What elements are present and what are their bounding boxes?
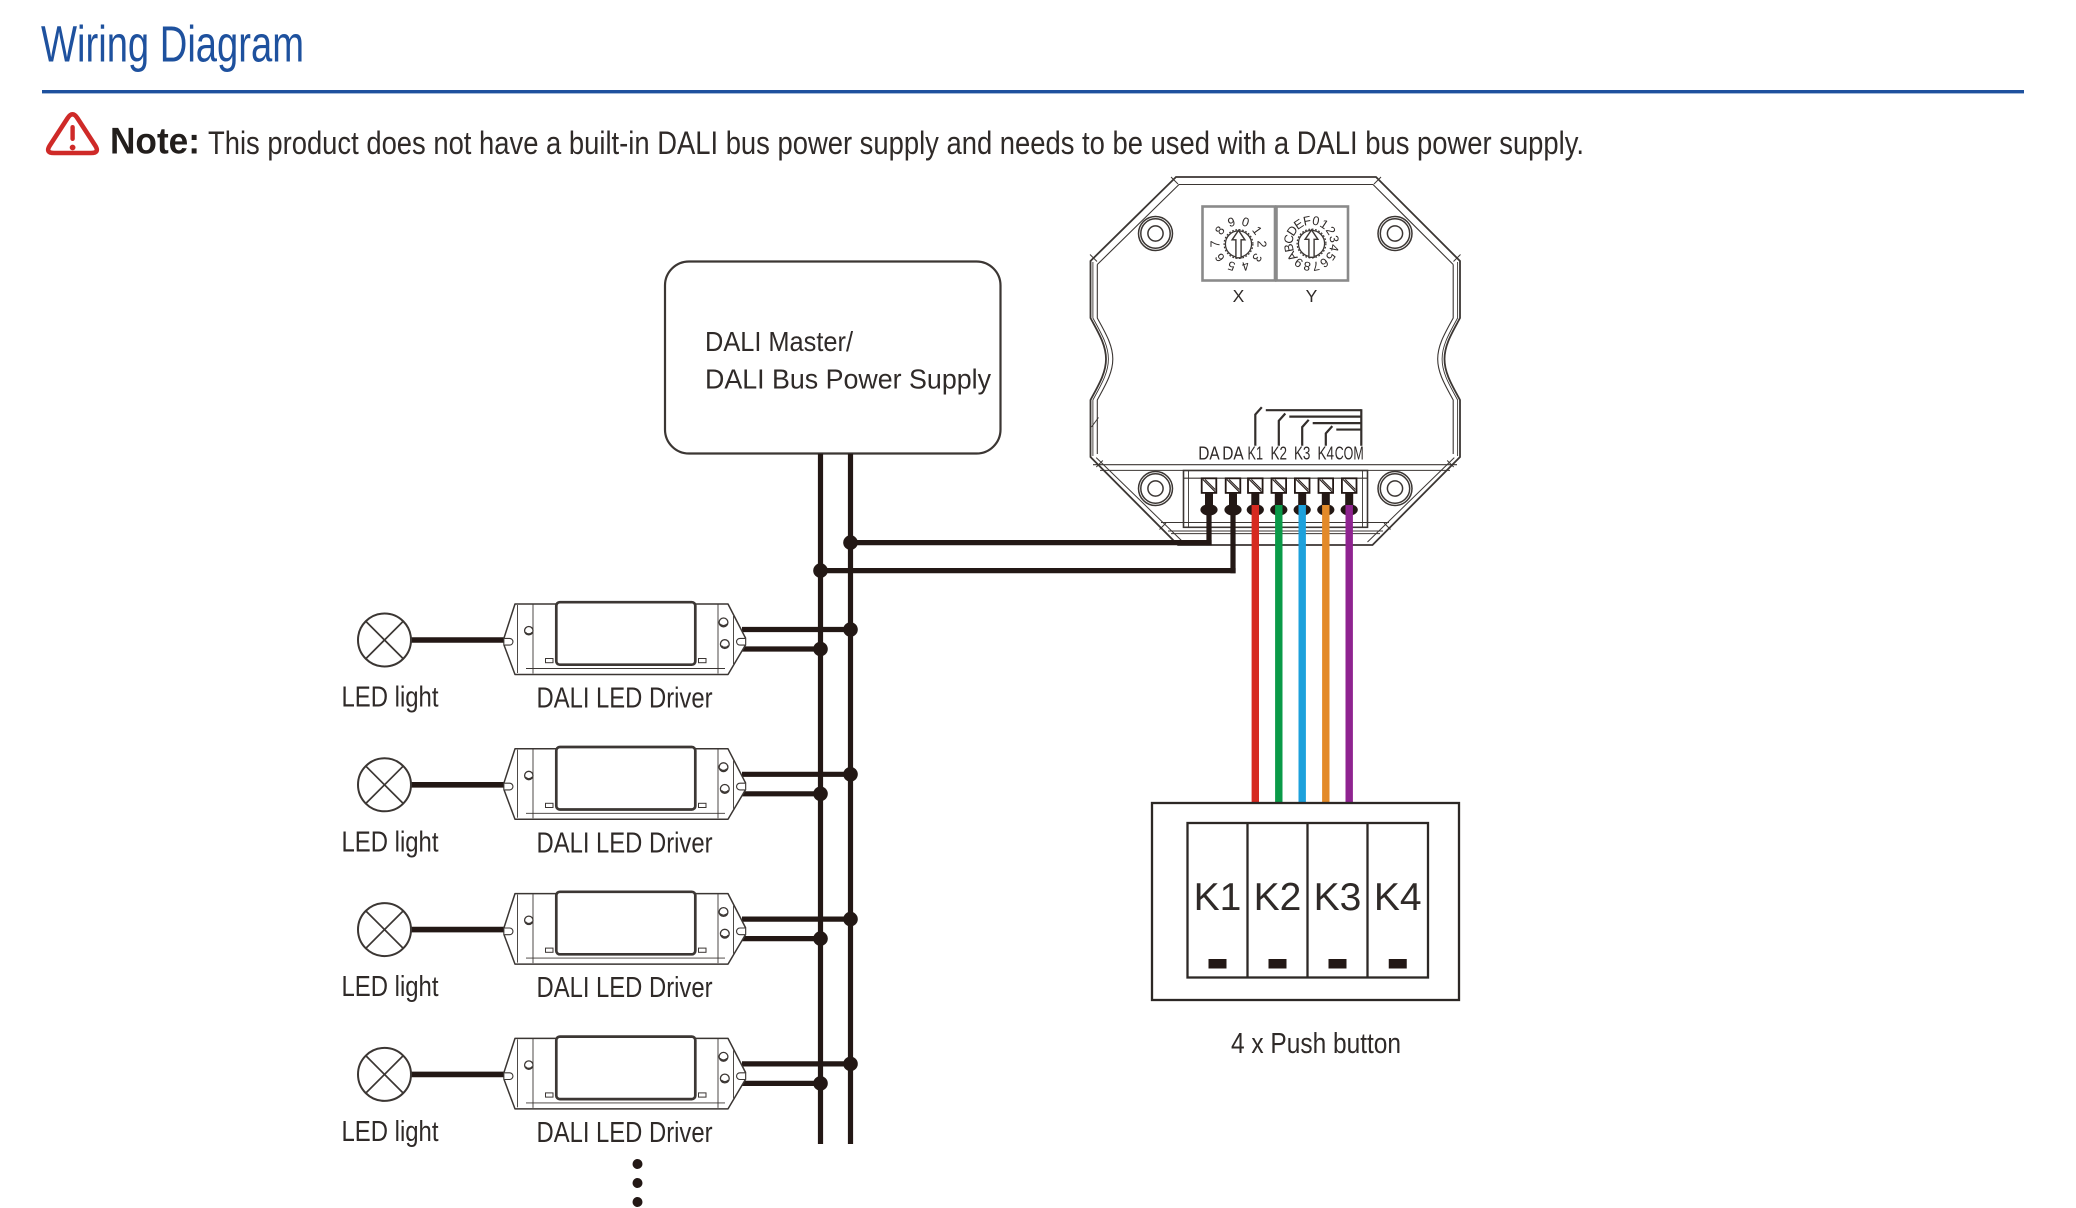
svg-text:K2: K2 <box>1271 444 1288 464</box>
svg-text:K2: K2 <box>1254 876 1302 919</box>
svg-text:K3: K3 <box>1294 444 1311 464</box>
svg-text:LED light: LED light <box>342 971 439 1003</box>
svg-text:4 x Push button: 4 x Push button <box>1231 1028 1401 1060</box>
svg-text:LED light: LED light <box>342 1116 439 1148</box>
svg-text:2: 2 <box>1254 240 1268 247</box>
svg-text:This product does not have a b: This product does not have a built-in DA… <box>208 125 1584 161</box>
svg-text:Wiring Diagram: Wiring Diagram <box>41 16 304 73</box>
svg-text:7: 7 <box>1209 240 1223 247</box>
svg-text:DALI LED Driver: DALI LED Driver <box>537 972 713 1004</box>
svg-text:K4: K4 <box>1374 876 1422 919</box>
svg-text:COM: COM <box>1335 444 1364 464</box>
svg-text:DALI LED Driver: DALI LED Driver <box>537 827 713 859</box>
svg-text:LED light: LED light <box>342 826 439 858</box>
svg-text:K4: K4 <box>1318 444 1335 464</box>
svg-text:DALI Master/: DALI Master/ <box>705 326 853 357</box>
svg-text:DALI LED Driver: DALI LED Driver <box>537 683 713 715</box>
svg-text:X: X <box>1233 286 1245 306</box>
svg-text:DALI LED Driver: DALI LED Driver <box>537 1117 713 1149</box>
svg-text:DA: DA <box>1222 444 1244 464</box>
svg-text:Y: Y <box>1306 286 1318 306</box>
svg-text:DALI Bus Power Supply: DALI Bus Power Supply <box>705 364 991 395</box>
svg-text:K1: K1 <box>1248 444 1264 464</box>
svg-text:K1: K1 <box>1194 876 1242 919</box>
svg-text:K3: K3 <box>1314 876 1362 919</box>
svg-text:Note:: Note: <box>110 121 200 162</box>
svg-text:DA: DA <box>1198 444 1220 464</box>
svg-text:LED light: LED light <box>342 682 439 714</box>
